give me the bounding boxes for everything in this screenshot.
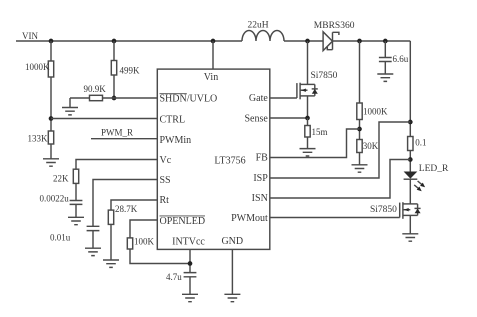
wire GND pin down: [231, 249, 233, 294]
svg-text:GND: GND: [221, 236, 243, 247]
junction dot ISN node: [408, 157, 413, 162]
svg-text:FB: FB: [256, 153, 269, 164]
wire divider column top: [359, 41, 361, 103]
svg-text:Rt: Rt: [160, 195, 170, 206]
wire CTRL: [51, 118, 157, 120]
wire Vc to 22K: [76, 160, 157, 170]
wire Q1 drain: [307, 41, 309, 84]
resistor R9 1000K: [357, 103, 388, 120]
wire rail mid (inductor to diode): [284, 40, 323, 42]
wire 0.1 to LED: [409, 151, 411, 172]
wire INTVcc pin down: [189, 249, 191, 272]
wire Rt to 28.7K: [111, 200, 157, 210]
wire 1000K to CTRL node: [50, 77, 52, 131]
inductor L1 22uH: [242, 21, 284, 42]
resistor R11 0.1: [408, 137, 427, 151]
svg-text:22uH: 22uH: [248, 21, 269, 31]
wire 1000K column top: [50, 41, 52, 61]
svg-text:0.0022u: 0.0022u: [40, 194, 70, 204]
svg-text:100K: 100K: [134, 237, 155, 247]
svg-text:Vc: Vc: [160, 155, 172, 166]
junction dot INTVcc node: [188, 261, 193, 266]
wire 6.6u to ground: [384, 62, 386, 75]
junction dot CTRL node: [49, 116, 54, 121]
wire 1000K to FB node: [359, 120, 361, 140]
ground below 133K: [43, 159, 59, 166]
svg-text:INTVcc: INTVcc: [172, 236, 205, 247]
junction dot switch node: [305, 39, 310, 44]
LED LED_R: [404, 164, 449, 193]
wire FB: [270, 129, 360, 158]
wire 22K to 0.0022u: [75, 183, 77, 200]
junction dot Sense node: [305, 116, 310, 121]
wire SS to 0.01u: [93, 180, 157, 227]
node VIN: [22, 31, 38, 41]
junction dot VIN/499K: [112, 39, 117, 44]
wire 0.0022u to ground: [75, 204, 77, 217]
svg-text:Si7850: Si7850: [311, 71, 338, 81]
svg-text:1000K: 1000K: [25, 62, 50, 72]
ground below 6.6u: [377, 74, 393, 81]
svg-text:15m: 15m: [312, 127, 328, 137]
junction dot ISP node: [408, 120, 413, 125]
diode D1 MBRS360: [314, 21, 355, 50]
svg-text:90.9K: 90.9K: [84, 84, 107, 94]
svg-text:0.01u: 0.01u: [50, 233, 71, 243]
svg-text:PWMout: PWMout: [231, 213, 268, 224]
resistor R4 90.9K: [84, 84, 107, 101]
wire Gate: [270, 97, 297, 99]
wire ISN: [270, 160, 411, 199]
svg-text:28.7K: 28.7K: [115, 204, 138, 214]
svg-text:MBRS360: MBRS360: [314, 21, 355, 31]
resistor R7 100K: [127, 237, 154, 250]
node PWM_R: [91, 127, 157, 138]
wire 30K to ground: [359, 153, 361, 165]
capacitor C3 4.7u: [166, 272, 196, 282]
svg-text:LT3756: LT3756: [214, 155, 245, 166]
wire 28.7K to ground: [110, 224, 112, 260]
ground below 15m: [300, 149, 316, 156]
wire rail right (diode to corner): [333, 40, 411, 42]
resistor R8 15m: [305, 118, 328, 137]
capacitor C4 6.6u: [379, 54, 409, 64]
capacitor C2 0.01u: [50, 226, 99, 242]
svg-text:PWM_R: PWM_R: [101, 127, 133, 137]
svg-text:SS: SS: [160, 175, 171, 186]
wire 499K column top: [113, 41, 115, 61]
svg-text:CTRL: CTRL: [160, 114, 186, 125]
wire 499K to SHDN node: [113, 75, 115, 98]
wire Q1 source to Sense: [307, 96, 309, 118]
wire 0.01u to ground: [92, 231, 94, 249]
wire output rail down right side: [409, 41, 411, 137]
ground below 28.7K: [103, 260, 119, 267]
capacitor C1 0.0022u: [40, 194, 83, 205]
ground below 0.01u: [85, 248, 101, 255]
wire 4.7u to ground: [189, 277, 191, 295]
svg-text:SHDN/UVLO: SHDN/UVLO: [160, 94, 218, 105]
wire ISP: [270, 122, 411, 178]
junction dot VIN/Vin-pin: [211, 39, 216, 44]
wire SHDN/UVLO: [70, 97, 157, 99]
svg-text:LED_R: LED_R: [419, 164, 449, 174]
ground below 90.9K: [62, 108, 78, 115]
svg-text:ISP: ISP: [253, 173, 268, 184]
resistor R6 28.7K: [108, 204, 137, 224]
svg-text:6.6u: 6.6u: [393, 54, 409, 64]
wire LED to Q2 drain: [409, 179, 411, 204]
svg-text:Si7850: Si7850: [370, 205, 397, 215]
wire PWMout: [270, 217, 400, 219]
ground below Q2: [402, 234, 418, 241]
svg-text:4.7u: 4.7u: [166, 272, 182, 282]
svg-text:Vin: Vin: [204, 72, 218, 83]
junction dot VIN/1000K: [49, 39, 54, 44]
op-amp U1 LT3756 box: [157, 69, 269, 249]
junction dot output/divider: [357, 39, 362, 44]
wire 133K to ground: [50, 144, 52, 159]
svg-text:133K: 133K: [28, 133, 49, 143]
junction dot SHDN node: [112, 96, 117, 101]
svg-text:ISN: ISN: [252, 193, 268, 204]
svg-text:0.1: 0.1: [415, 138, 426, 148]
ground below 30K: [352, 165, 368, 172]
resistor R1 1000K: [25, 61, 54, 77]
resistor R3 499K: [111, 61, 140, 76]
svg-text:Sense: Sense: [244, 113, 268, 124]
wire Q2 source to ground: [409, 215, 411, 233]
svg-text:22K: 22K: [53, 173, 69, 183]
svg-text:1000K: 1000K: [363, 107, 388, 117]
svg-text:30K: 30K: [363, 141, 379, 151]
resistor R10 30K: [357, 140, 379, 153]
wire VIN rail left: [16, 40, 242, 42]
wire 100K to INTVcc node: [130, 249, 190, 264]
transistor Q2 Si7850: [370, 202, 421, 219]
svg-text:VIN: VIN: [22, 31, 38, 41]
wire 6.6u column: [384, 41, 386, 58]
transistor Q1 Si7850: [297, 71, 338, 100]
svg-text:PWMin: PWMin: [160, 135, 192, 146]
resistor R2 133K: [28, 131, 54, 144]
svg-text:OPENLED: OPENLED: [160, 216, 206, 227]
wire OPENLED to 100K: [130, 220, 157, 238]
wire 90.9K to ground: [69, 98, 71, 108]
wire Vin pin drop: [212, 41, 214, 69]
junction dot FB divider node: [357, 127, 362, 132]
ground below 4.7u: [182, 294, 198, 301]
ground below GND pin: [224, 294, 240, 301]
resistor R5 22K: [53, 169, 79, 183]
wire 15m to ground: [307, 137, 309, 149]
svg-text:Gate: Gate: [249, 93, 268, 104]
junction dot output/6.6u: [383, 39, 388, 44]
wire Sense: [270, 117, 308, 119]
ground below 0.0022u: [68, 217, 84, 224]
svg-text:499K: 499K: [120, 65, 141, 75]
